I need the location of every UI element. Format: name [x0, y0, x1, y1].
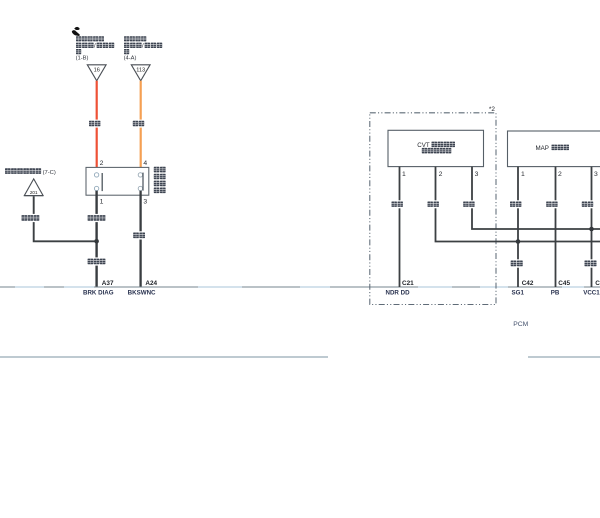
svg-text:201: 201 [30, 190, 38, 195]
sensor U2: MAP sensor box (clipped at right edge) [508, 131, 600, 167]
separator line bottom-right [528, 356, 600, 358]
svg-text:16: 16 [94, 68, 100, 74]
svg-text:CVT: CVT [417, 142, 430, 149]
label: 制动踏板位置开关 (brake pedal position switch name, vertical) [154, 167, 166, 193]
svg-text:SG1: SG1 [512, 290, 525, 297]
label: CVT 驱动带轮转速传感器 [417, 142, 455, 154]
svg-text:1: 1 [521, 171, 525, 178]
svg-text:4: 4 [143, 160, 147, 167]
label: under-hood fuse/relay box 发动机罩下 保险丝/继电器 盒 (1-B) [76, 36, 115, 61]
power feed triangle 113 (under-dash fuse 113) [131, 65, 150, 81]
wire: pink MAP pin3 to PCM (VCC1) [591, 167, 593, 287]
wire color label 蓝色 upper [509, 200, 523, 208]
svg-text:BRK DIAG: BRK DIAG [83, 290, 114, 297]
wire: light green branch from triangle 201 down and right to junction [34, 196, 97, 241]
wire: blue CVT pin2 runs right [436, 167, 600, 242]
svg-text:(1-B): (1-B) [76, 56, 89, 62]
wire: orange feed from fuse 113 to switch pin 4 [140, 81, 142, 173]
svg-text:A24: A24 [145, 280, 157, 287]
option boundary dash-dot box around CVT sensor [370, 113, 496, 305]
switch contact circles + lever (right half, BKSWNC, closed) [138, 173, 143, 191]
junction: light green wire junction dot [94, 239, 99, 244]
wire: red CVT pin1 to PCM C21 [399, 167, 401, 287]
svg-text:PCM: PCM [513, 321, 528, 328]
svg-text:C42: C42 [522, 280, 534, 287]
svg-text:NDR DD: NDR DD [386, 290, 411, 297]
sensor U1: CVT drive pulley speed sensor box [388, 130, 484, 166]
switch S1: brake pedal position switch body [86, 167, 149, 195]
wire color label 粉色 [462, 200, 476, 208]
label: 制动灯继电器 (7-C) brake light relay [5, 168, 56, 176]
wire: red MAP pin2 to PCM C45 (PB) [555, 167, 557, 287]
junction: pink net junction dot [589, 227, 594, 232]
wire color label 红色 (red) [88, 120, 102, 128]
svg-text:C4: C4 [595, 280, 600, 287]
wire: pink CVT pin3 runs right [472, 167, 600, 229]
wire: PCM line lighter blue segments [15, 286, 584, 288]
wire: blue MAP pin1 to PCM C42 (SG1) [517, 167, 519, 287]
wire color label 红色 [390, 200, 404, 208]
wire color label 粉色 lower [583, 259, 598, 267]
label: under-dash fuse/relay box 仪表板下 保险丝/继电器 盒 (4-A) [124, 36, 163, 61]
wire: gray from switch pin 3 to PCM pin A24 [139, 191, 141, 287]
svg-text:1: 1 [402, 171, 406, 178]
label: MAP 传感器 [536, 145, 570, 153]
svg-text:*2: *2 [489, 106, 495, 113]
wire color label 红色 [545, 200, 559, 208]
wire: red feed from fuse 16 to switch pin 2 [96, 81, 98, 173]
svg-text:3: 3 [475, 171, 479, 178]
wire color label 浅绿色 lower [86, 257, 107, 265]
switch contact circles + lever (left half, BRK DIAG, open) [94, 173, 102, 191]
wire color label 蓝色 [426, 200, 440, 208]
svg-text:MAP: MAP [536, 145, 549, 152]
svg-text:113: 113 [136, 68, 145, 74]
svg-text:A37: A37 [102, 280, 114, 287]
wire color label 蓝色 lower [510, 259, 525, 267]
power feed triangle 16 (under-hood fuse 16) [87, 65, 106, 81]
wire color label 浅绿色 upper [86, 214, 107, 222]
wire color label 灰色 (gray) [132, 231, 146, 239]
svg-text:2: 2 [439, 171, 443, 178]
junction: blue net junction dot [516, 239, 521, 244]
svg-text:(7-C): (7-C) [43, 170, 56, 176]
svg-text:3: 3 [594, 171, 598, 178]
svg-text:2: 2 [100, 160, 104, 167]
svg-text:VCC1: VCC1 [583, 290, 600, 297]
svg-text:BKSWNC: BKSWNC [128, 290, 156, 297]
svg-text:(4-A): (4-A) [124, 56, 137, 62]
svg-text:C21: C21 [402, 280, 414, 287]
PCM boundary line [0, 286, 600, 288]
svg-text:C45: C45 [558, 280, 570, 287]
connector triangle 201 (to brake light relay) [24, 179, 43, 196]
separator line bottom-left [0, 356, 328, 358]
wire color label 粉色 upper [581, 200, 595, 208]
wire: light green from switch pin 1 to PCM pin A37 [95, 191, 97, 287]
svg-text:3: 3 [143, 199, 147, 206]
wire color label 浅绿色 (light green) left branch [20, 214, 41, 222]
cursor icon [72, 27, 80, 36]
svg-text:1: 1 [100, 199, 104, 206]
wire color label 橙色 (orange) [132, 120, 146, 128]
svg-text:PB: PB [551, 290, 560, 297]
svg-text:2: 2 [558, 171, 562, 178]
